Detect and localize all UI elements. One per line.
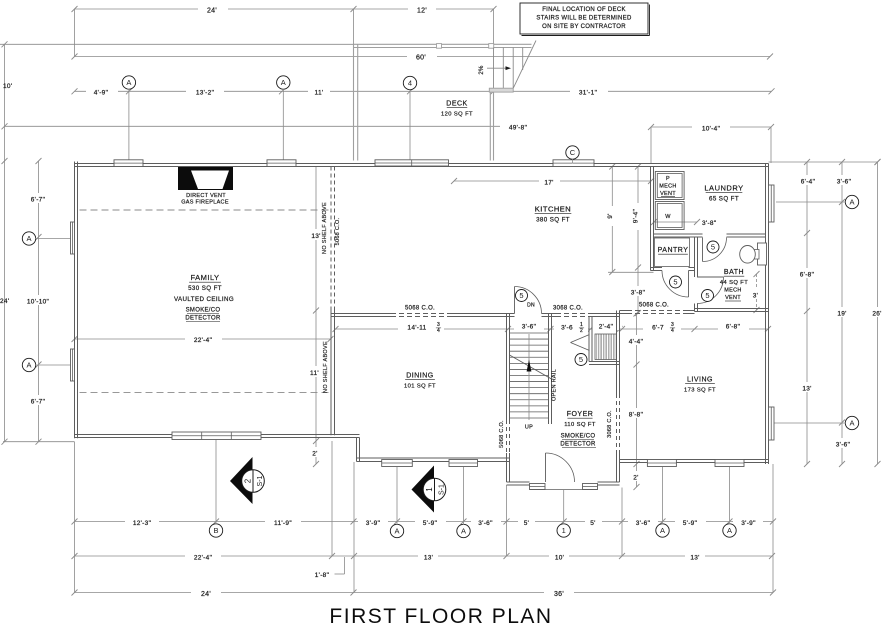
bubble B bottom	[209, 524, 222, 537]
svg-text:3'-6": 3'-6"	[636, 520, 651, 527]
wall family west	[75, 162, 78, 439]
window family west 2	[71, 349, 75, 381]
svg-text:36': 36'	[554, 591, 564, 598]
svg-text:9': 9'	[607, 213, 614, 218]
dim 13' bottom living	[622, 550, 775, 562]
wall laundry bottom e	[727, 234, 766, 237]
dim 1'-8" leader	[315, 557, 345, 579]
svg-text:DN: DN	[527, 303, 535, 309]
deck stair stringer1	[493, 48, 495, 92]
svg-text:BATH: BATH	[724, 269, 744, 276]
grid bubble 4 deck	[403, 76, 416, 159]
svg-text:SMOKE/CO: SMOKE/CO	[186, 308, 221, 314]
dim 24' bottom	[72, 586, 357, 598]
svg-text:B: B	[213, 526, 218, 535]
svg-text:4: 4	[671, 328, 674, 334]
svg-text:1: 1	[425, 487, 434, 492]
label DECK	[441, 101, 473, 118]
svg-text:5: 5	[519, 291, 523, 300]
deck post 1	[437, 44, 442, 49]
deck stair tread1	[502, 48, 504, 89]
svg-text:3'-9": 3'-9"	[366, 520, 381, 527]
svg-text:C: C	[570, 148, 576, 157]
label DINING	[404, 373, 436, 390]
ext x397	[396, 467, 398, 525]
left col x4.5	[0, 41, 12, 444]
wall family/kitchen dashed	[331, 167, 335, 311]
svg-text:380 SQ FT: 380 SQ FT	[536, 217, 570, 224]
svg-text:24': 24'	[0, 298, 9, 305]
svg-text:5'-9": 5'-9"	[683, 520, 698, 527]
window living east	[769, 407, 775, 440]
wall closet west	[589, 317, 592, 362]
window laundry east	[769, 185, 775, 222]
svg-text:NO SHELF ABOVE: NO SHELF ABOVE	[323, 341, 329, 393]
ext x622 bottom	[621, 488, 623, 557]
svg-text:13'-2": 13'-2"	[196, 89, 215, 96]
svg-text:3'-6": 3'-6"	[836, 442, 851, 449]
svg-text:PANTRY: PANTRY	[658, 247, 689, 254]
deck stair tread2	[512, 48, 514, 89]
svg-text:5: 5	[579, 355, 583, 364]
wall foyer top cased	[556, 314, 591, 317]
svg-text:FINAL LOCATION OF DECK: FINAL LOCATION OF DECK	[542, 7, 626, 13]
wall foyer bottom e	[598, 482, 620, 485]
right col x877	[868, 159, 883, 467]
door closet bifold	[571, 335, 590, 351]
door bubble 5 basement	[516, 290, 528, 302]
svg-text:5068 C.O.: 5068 C.O.	[639, 303, 669, 309]
deck top rail	[354, 44, 532, 47]
wall foyer west lower	[507, 453, 510, 482]
dim 13' bottom dining	[354, 550, 510, 562]
ext line x74 top	[74, 9, 76, 57]
left col x38.5	[19, 158, 58, 445]
wall east (laundry/bath/living)	[766, 164, 769, 465]
dim 24' top	[72, 3, 357, 15]
dim row y329	[333, 318, 623, 334]
toilet	[740, 243, 767, 265]
svg-text:4'-9": 4'-9"	[94, 89, 109, 96]
bubble 1 bottom	[557, 524, 570, 537]
svg-text:A: A	[849, 419, 854, 428]
svg-text:W: W	[665, 214, 671, 220]
wall bath-west solid e	[687, 311, 695, 314]
wall foyer bottom w	[507, 482, 530, 485]
ext x354	[353, 462, 355, 593]
svg-text:60': 60'	[416, 55, 426, 62]
dim 3' bath v	[749, 271, 763, 313]
label FAMILY	[174, 273, 234, 322]
svg-text:4: 4	[437, 328, 440, 334]
svg-text:A: A	[281, 78, 286, 87]
ext x729 window	[729, 467, 731, 524]
svg-text:8'-8": 8'-8"	[629, 412, 644, 419]
svg-text:11'-9": 11'-9"	[274, 520, 292, 527]
svg-text:OPEN RAIL: OPEN RAIL	[552, 369, 558, 401]
svg-text:65 SQ FT: 65 SQ FT	[709, 196, 739, 203]
window living bottom 2	[715, 460, 744, 467]
svg-text:ON SITE BY CONTRACTOR: ON SITE BY CONTRACTOR	[542, 24, 626, 30]
svg-text:12'-3": 12'-3"	[133, 520, 152, 527]
ext x74 bottom	[74, 442, 76, 593]
note box	[520, 3, 650, 36]
svg-text:NO SHELF ABOVE: NO SHELF ABOVE	[322, 202, 328, 254]
deck stair break	[513, 41, 536, 89]
pantry shelf	[655, 238, 690, 267]
svg-text:UP: UP	[525, 425, 533, 431]
svg-text:5': 5'	[590, 520, 595, 527]
wall family-dining jog	[357, 438, 360, 462]
svg-text:3'-8": 3'-8"	[702, 220, 717, 227]
grid bubble C kitchen	[566, 146, 579, 164]
svg-text:FIRST FLOOR PLAN: FIRST FLOOR PLAN	[329, 605, 552, 628]
wall bath-west solid w	[620, 311, 628, 314]
family ceiling dash 2	[80, 392, 331, 394]
closet shelving	[595, 334, 617, 360]
wall top (family+kitchen+laundry)	[75, 164, 769, 167]
window family west 1	[71, 222, 75, 254]
svg-text:A: A	[660, 526, 665, 535]
dim 12' top	[354, 3, 497, 15]
svg-text:19': 19'	[837, 311, 846, 318]
svg-text:DETECTOR: DETECTOR	[185, 316, 221, 322]
stair treads	[510, 333, 549, 418]
grid bubble A left2	[22, 358, 70, 371]
svg-text:3'-6": 3'-6"	[478, 520, 493, 527]
dim row y521 dining	[354, 516, 510, 527]
window family top 1	[114, 160, 143, 167]
slider kitchen top	[375, 160, 449, 166]
svg-text:14'-11: 14'-11	[407, 325, 426, 332]
svg-text:5068 C.O.: 5068 C.O.	[405, 306, 435, 312]
svg-text:VENT: VENT	[725, 295, 741, 301]
svg-text:LIVING: LIVING	[687, 377, 713, 384]
svg-text:6'-4": 6'-4"	[801, 179, 816, 186]
svg-text:3'-9": 3'-9"	[741, 520, 756, 527]
wall dining bottom	[357, 458, 511, 462]
vlabel 5068 foyer west	[499, 420, 505, 448]
dim 9'-4 v	[623, 164, 653, 317]
svg-text:120 SQ FT: 120 SQ FT	[441, 112, 473, 118]
window kitchen top	[553, 160, 594, 167]
vlabel no-shelf lower	[323, 341, 329, 393]
dim 49'-8"	[2, 120, 539, 131]
svg-text:VENT: VENT	[660, 191, 676, 197]
svg-text:13': 13'	[424, 555, 433, 562]
svg-text:9'-4": 9'-4"	[633, 208, 640, 223]
door pantry	[662, 271, 689, 298]
left bottom line y441	[3, 441, 75, 443]
ext x662 window	[662, 467, 664, 524]
svg-text:3: 3	[437, 322, 440, 328]
wall foyer east lower	[617, 454, 620, 482]
label fireplace	[181, 193, 229, 206]
deck west rail	[354, 44, 358, 160]
label LAUNDRY	[704, 184, 743, 203]
door laundry-bath	[703, 238, 727, 262]
svg-text:2': 2'	[312, 451, 317, 458]
ext line x493 top	[493, 9, 495, 44]
sidelight foyer left	[530, 484, 546, 490]
svg-text:101 SQ FT: 101 SQ FT	[404, 384, 436, 390]
svg-text:DINING: DINING	[406, 373, 434, 380]
wall pantry bottom w	[651, 268, 663, 271]
deck post 2	[489, 44, 494, 49]
svg-text:22'-4": 22'-4"	[194, 555, 213, 562]
svg-text:A: A	[727, 526, 732, 535]
wall closet east solid	[617, 314, 620, 365]
svg-text:6'-7": 6'-7"	[31, 197, 46, 204]
label 5068 bath	[639, 303, 669, 309]
svg-text:17': 17'	[544, 180, 553, 187]
svg-text:530 SQ FT: 530 SQ FT	[188, 285, 222, 292]
ext x334 (family east)	[331, 441, 333, 556]
deck east rail	[490, 92, 493, 161]
svg-text:173 SQ FT: 173 SQ FT	[684, 388, 716, 394]
window living bottom 1	[647, 460, 676, 467]
wall bath west jamb	[695, 304, 698, 312]
window dining bottom 2	[449, 460, 478, 467]
svg-text:2': 2'	[633, 475, 638, 482]
wall foyer east solid2	[617, 365, 620, 395]
svg-text:13': 13'	[311, 233, 320, 240]
wall kitchen/laundry	[651, 167, 654, 271]
bubble A bottom4	[723, 524, 736, 537]
line y44 left	[0, 43, 354, 45]
right col x842	[827, 162, 861, 467]
svg-text:3'-6": 3'-6"	[522, 324, 537, 331]
label 3068 foyer top	[553, 306, 583, 312]
wall stair west	[507, 314, 510, 421]
label PANTRY	[658, 247, 689, 254]
grid bubble A left1	[22, 232, 70, 245]
dim row y521 left	[72, 516, 357, 527]
svg-text:22'-4": 22'-4"	[194, 337, 213, 344]
svg-text:LAUNDRY: LAUNDRY	[704, 184, 743, 193]
grid bubble A2 top	[277, 76, 290, 164]
dim 60'	[72, 50, 774, 62]
svg-text:3068 C.O.: 3068 C.O.	[607, 410, 613, 438]
svg-text:2: 2	[243, 478, 252, 483]
svg-text:4'-4": 4'-4"	[629, 339, 644, 346]
label DN basement	[527, 303, 535, 309]
svg-text:3068 C.O.: 3068 C.O.	[553, 306, 583, 312]
vlabel 3068 foyer east	[607, 410, 613, 438]
dim 13'/11' family v	[306, 167, 326, 468]
dim 2% deck slope	[479, 65, 511, 75]
label 5068 kitchen	[405, 306, 435, 312]
wall kitchen bottom east	[450, 314, 510, 317]
dim 22'-4" bottom	[72, 550, 358, 562]
door bath inner	[697, 277, 724, 304]
svg-text:13': 13'	[802, 386, 811, 393]
svg-text:5068 C.O.: 5068 C.O.	[335, 217, 341, 245]
svg-text:A: A	[849, 198, 854, 207]
dim 22'-4 family interior	[72, 333, 334, 344]
svg-text:1: 1	[580, 322, 583, 328]
svg-text:5068 C.O.: 5068 C.O.	[499, 420, 505, 448]
svg-text:26': 26'	[872, 311, 881, 318]
door bubble 5 bath inner	[702, 290, 714, 302]
dim 36' bottom	[354, 586, 777, 598]
wall pantry east / bath west upper	[695, 237, 698, 277]
wall connector closet NE	[617, 311, 620, 314]
svg-text:3'-8": 3'-8"	[631, 290, 646, 297]
wall bath bottom	[695, 309, 769, 312]
wall foyer top e	[591, 314, 620, 317]
svg-text:A: A	[26, 361, 31, 370]
svg-text:6'-7": 6'-7"	[31, 399, 46, 406]
vlabel no-shelf upper	[322, 202, 328, 254]
svg-text:FAMILY: FAMILY	[190, 273, 219, 282]
deck stair landing	[489, 88, 513, 92]
dim row y521 foyer	[507, 516, 626, 527]
label FOYER	[560, 411, 596, 448]
svg-text:10'-10": 10'-10"	[27, 299, 50, 306]
wall stair top stub e	[542, 314, 549, 317]
sidelight foyer right	[583, 484, 598, 490]
svg-text:11': 11'	[315, 89, 324, 96]
bubble A bottom1	[390, 524, 403, 537]
wall foyer east cased	[617, 394, 620, 454]
svg-text:2%: 2%	[479, 65, 485, 75]
ext x463	[463, 467, 465, 525]
window family top 2	[267, 160, 296, 167]
svg-text:2'-4": 2'-4"	[599, 324, 614, 331]
door bubble 5 bath top	[707, 241, 719, 253]
svg-text:12': 12'	[417, 8, 427, 15]
dim row y91	[72, 85, 775, 96]
svg-text:3: 3	[671, 322, 674, 328]
svg-text:A: A	[394, 527, 399, 536]
svg-text:5: 5	[673, 278, 677, 287]
wall stair top stub w	[510, 314, 515, 317]
mech labels	[659, 176, 676, 220]
svg-text:5'-9": 5'-9"	[423, 520, 438, 527]
deck stair tread3	[522, 48, 524, 71]
title FIRST FLOOR PLAN	[329, 605, 552, 628]
svg-text:A: A	[461, 527, 466, 536]
grid bubble A right2	[774, 416, 859, 429]
svg-text:5': 5'	[524, 520, 529, 527]
ext x506 bottom	[506, 485, 508, 556]
grid bubble A right1	[776, 195, 859, 208]
svg-text:10': 10'	[555, 555, 564, 562]
svg-text:STAIRS WILL BE DETERMINED: STAIRS WILL BE DETERMINED	[536, 16, 632, 22]
svg-text:MECH: MECH	[659, 184, 676, 190]
svg-text:5: 5	[705, 291, 709, 300]
wall stair west cased	[507, 420, 510, 453]
svg-text:DECK: DECK	[446, 101, 467, 108]
grid bubble A1 top	[122, 76, 135, 164]
svg-text:2: 2	[580, 328, 583, 334]
dim 10' bottom foyer	[507, 550, 626, 562]
door front entry	[546, 453, 575, 482]
dim 17' kitchen	[451, 175, 654, 187]
fireplace	[178, 167, 233, 190]
bubble A bottom2	[457, 524, 470, 537]
svg-text:1'-8": 1'-8"	[315, 572, 330, 579]
dim 9' kitchen v	[607, 164, 654, 276]
svg-text:4: 4	[408, 79, 412, 88]
ext line x353 top	[353, 9, 355, 44]
vlabel 5068 upper	[335, 217, 341, 245]
svg-text:31'-1": 31'-1"	[579, 89, 598, 96]
window dining bottom 1	[382, 460, 413, 467]
svg-text:110 SQ FT: 110 SQ FT	[564, 422, 596, 428]
svg-text:S-1: S-1	[257, 475, 264, 486]
svg-text:49'-8": 49'-8"	[509, 124, 528, 131]
door bubble 5 closet	[575, 354, 587, 366]
svg-text:6'-7: 6'-7	[652, 325, 664, 332]
dim 4'-4/8'-8/2' v	[621, 311, 652, 491]
wall kitchen bottom west	[331, 314, 391, 317]
bubble A bottom3	[656, 524, 669, 537]
svg-text:S-1: S-1	[439, 484, 446, 495]
svg-text:10': 10'	[3, 83, 12, 90]
wall pantry bottom e	[689, 268, 696, 271]
svg-text:6'-8": 6'-8"	[726, 324, 741, 331]
svg-text:VAULTED CEILING: VAULTED CEILING	[174, 296, 234, 303]
svg-text:6'-8": 6'-8"	[800, 272, 815, 279]
svg-text:13': 13'	[690, 555, 699, 562]
svg-text:24': 24'	[207, 8, 217, 15]
wall living bottom	[620, 460, 769, 463]
wall stair east	[549, 314, 552, 425]
foyer door sill	[530, 489, 598, 491]
svg-text:10'-4": 10'-4"	[702, 125, 721, 132]
svg-text:5: 5	[711, 243, 715, 252]
wall family/dining solid	[331, 310, 335, 435]
svg-text:MECH: MECH	[724, 288, 741, 294]
dim row y329 east	[619, 318, 771, 334]
ext x773 bottom	[772, 464, 774, 593]
svg-text:P: P	[666, 176, 670, 182]
dim row y521 living	[622, 516, 776, 527]
svg-text:GAS FIREPLACE: GAS FIREPLACE	[181, 200, 229, 206]
svg-text:3'-6": 3'-6"	[837, 179, 852, 186]
svg-text:SMOKE/CO: SMOKE/CO	[561, 434, 596, 440]
window family bottom triple	[172, 432, 261, 440]
label LIVING	[684, 377, 716, 394]
svg-text:44 SQ FT: 44 SQ FT	[720, 280, 748, 286]
wall kitchen bottom cased	[391, 314, 450, 317]
svg-text:KITCHEN: KITCHEN	[535, 205, 571, 214]
svg-text:DIRECT VENT: DIRECT VENT	[186, 193, 226, 199]
right top line y162	[769, 159, 881, 165]
wall laundry bottom w	[654, 234, 703, 237]
wall family bottom	[75, 435, 360, 438]
label BATH	[720, 269, 748, 301]
label KITCHEN	[535, 205, 572, 224]
svg-text:3'-6: 3'-6	[561, 325, 573, 332]
wall closet bottom	[589, 362, 620, 365]
family ceiling dash 1	[80, 209, 331, 211]
ext x563 door	[563, 490, 565, 524]
right col x807	[790, 162, 824, 467]
svg-text:A: A	[126, 78, 131, 87]
dim 3'-8 laundry	[651, 219, 717, 227]
section marker S-1/2 family	[230, 457, 264, 504]
section marker S-1/1 dining	[412, 466, 446, 513]
svg-text:24': 24'	[201, 591, 211, 598]
vlabel open rail	[552, 369, 558, 401]
svg-text:3': 3'	[753, 293, 758, 300]
dim 10'-4"	[648, 121, 774, 164]
stair break diagonal	[510, 355, 552, 379]
svg-text:1: 1	[562, 526, 566, 535]
